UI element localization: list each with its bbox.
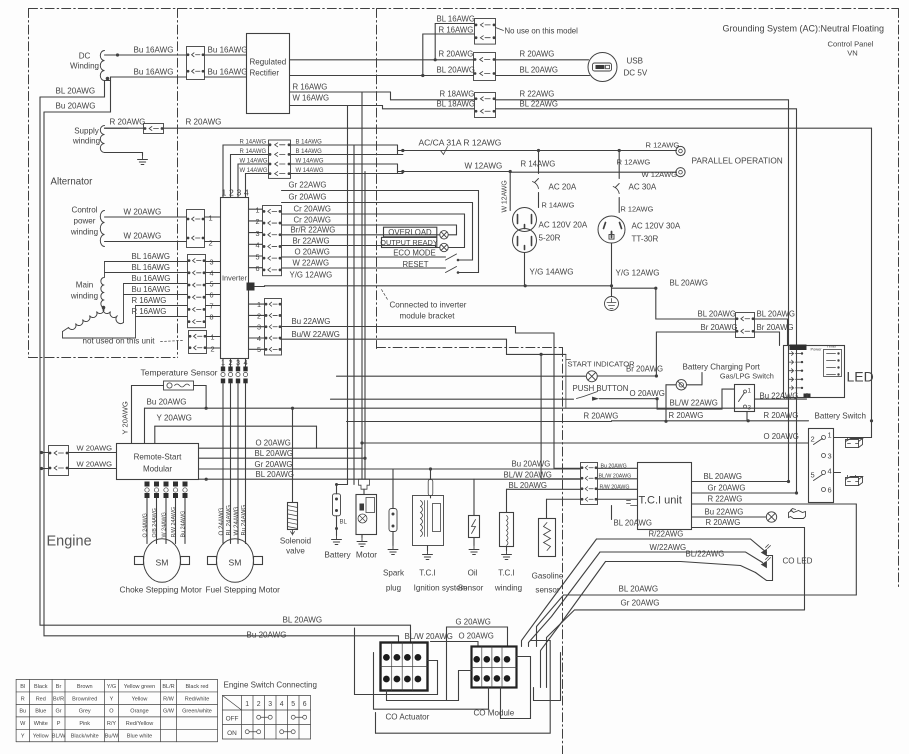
colour code table	[16, 680, 217, 742]
svg-text:Power: Power	[811, 347, 823, 352]
svg-text:5: 5	[811, 471, 815, 480]
wire R 16AWG main winding row 8	[136, 316, 188, 318]
wire W 16AWG vertical drop to battery	[347, 106, 349, 485]
svg-text:Y 20AWG: Y 20AWG	[121, 401, 130, 434]
wire O 20AWG remote out	[199, 447, 363, 449]
wire BL 16AWG main winding row 3	[105, 261, 188, 263]
svg-text:W 12AWG: W 12AWG	[642, 170, 678, 179]
svg-text:Bu 16AWG: Bu 16AWG	[134, 46, 174, 55]
svg-text:not used on this unit: not used on this unit	[83, 337, 156, 346]
svg-text:Connected to inverter: Connected to inverter	[390, 301, 467, 310]
duplex outlet 5-20R	[513, 208, 537, 232]
svg-text:O 20AWG: O 20AWG	[459, 632, 494, 641]
svg-text:Gr: Gr	[55, 709, 61, 715]
wire solenoid up	[292, 408, 294, 502]
svg-text:Temperature Sensor: Temperature Sensor	[141, 368, 218, 378]
control panel dash-dot divider	[376, 9, 378, 349]
svg-text:BL: BL	[340, 520, 348, 526]
svg-text:OFF: OFF	[226, 716, 239, 723]
svg-text:Br 20AWG: Br 20AWG	[626, 365, 663, 374]
svg-text:START INDICATOR: START INDICATOR	[568, 360, 636, 369]
svg-text:BL 16AWG: BL 16AWG	[132, 263, 171, 272]
wire R 16AWG main winding row 7	[136, 305, 188, 307]
svg-text:W 14AWG: W 14AWG	[240, 159, 268, 165]
svg-text:R 12AWG: R 12AWG	[617, 158, 651, 167]
svg-text:R 12AWG: R 12AWG	[646, 141, 680, 150]
wire gas switch pin3 to R 20AWG	[746, 412, 748, 421]
svg-text:Bu 24AWG: Bu 24AWG	[181, 511, 187, 538]
svg-text:1: 1	[256, 206, 260, 215]
wire R 20AWG usb left	[290, 59, 474, 61]
svg-text:Green/white: Green/white	[182, 709, 212, 715]
wire push button left	[331, 398, 574, 400]
choke stepping motor SM	[144, 539, 181, 583]
wire BL 20AWG usb right	[496, 75, 590, 77]
ground supply winding	[105, 153, 143, 156]
svg-text:Supply: Supply	[74, 127, 99, 136]
svg-text:BL 22AWG: BL 22AWG	[520, 100, 559, 109]
wire co module riser 1	[501, 657, 531, 719]
svg-text:Br: Br	[56, 684, 62, 690]
svg-text:4: 4	[244, 358, 248, 367]
battery icon upper	[846, 438, 863, 448]
wire co module loop 1	[387, 671, 472, 701]
temperature sensor symbol	[164, 381, 194, 390]
wire Gr 20AWG remote out to tci	[199, 468, 581, 470]
svg-text:ECO MODE: ECO MODE	[393, 249, 436, 258]
wire BL 20AWG remote out	[199, 457, 366, 459]
svg-text:3: 3	[237, 188, 242, 198]
svg-text:winding: winding	[72, 137, 100, 146]
svg-text:R 16AWG: R 16AWG	[132, 296, 167, 305]
coil supply winding	[100, 126, 104, 153]
tci unit box	[638, 463, 692, 530]
wire Bu 16AWG to rectifier lower	[205, 76, 247, 78]
svg-text:Main: Main	[76, 281, 93, 290]
connector remote start left	[49, 446, 69, 476]
svg-text:W 24AWG: W 24AWG	[233, 506, 240, 535]
wires B/W 14AWG to junctions	[291, 144, 398, 146]
svg-text:Regulated: Regulated	[250, 58, 287, 67]
svg-text:Bu 16AWG: Bu 16AWG	[132, 285, 171, 294]
svg-text:5-20R: 5-20R	[539, 234, 561, 243]
svg-text:Engine Switch Connecting: Engine Switch Connecting	[224, 681, 317, 690]
battery icon lower	[846, 476, 863, 486]
wire tci winding up	[506, 489, 508, 512]
wire Gr 22AWG	[282, 190, 479, 192]
svg-text:Battery Charging Port: Battery Charging Port	[683, 363, 761, 372]
svg-text:1: 1	[828, 431, 832, 440]
wire Br 22AWG to output ready	[282, 246, 440, 248]
svg-text:DC 5V: DC 5V	[624, 69, 648, 78]
battery charging port symbol	[676, 380, 686, 390]
svg-text:Y/G: Y/G	[107, 684, 117, 690]
svg-text:R 14AWG: R 14AWG	[542, 201, 575, 210]
wire Bu/W 22AWG inverter to start	[281, 339, 566, 354]
wire BL 20AWG remote out 2	[199, 478, 581, 480]
wire Bu 16AWG lower	[105, 77, 187, 81]
svg-text:5: 5	[256, 252, 260, 261]
wire W 20AWG remote 1	[41, 452, 49, 454]
svg-text:T.C.I: T.C.I	[498, 569, 515, 578]
svg-text:R 22AWG: R 22AWG	[520, 90, 555, 99]
svg-text:W 12AWG: W 12AWG	[502, 180, 509, 212]
svg-text:BL/W 20AWG: BL/W 20AWG	[504, 471, 552, 480]
svg-text:valve: valve	[286, 547, 305, 556]
svg-text:W 24AWG: W 24AWG	[162, 512, 168, 537]
svg-text:AC 30A: AC 30A	[629, 183, 657, 192]
svg-text:Pink: Pink	[79, 721, 90, 727]
coil DC winding	[100, 51, 104, 81]
wire Br 20AWG to led	[656, 332, 735, 376]
svg-text:Winding: Winding	[70, 62, 99, 71]
svg-text:6: 6	[303, 701, 307, 708]
ground bolt symbol	[605, 297, 619, 311]
wire O 20AWG to eco mode	[282, 256, 446, 258]
svg-text:AC 20A: AC 20A	[549, 183, 577, 192]
svg-text:Cr 20AWG: Cr 20AWG	[294, 216, 331, 225]
frame dash-dot border right	[898, 9, 900, 590]
svg-text:O 20AWG: O 20AWG	[256, 439, 291, 448]
svg-text:O: O	[109, 709, 114, 715]
svg-text:Bu 20AWG: Bu 20AWG	[247, 631, 287, 640]
svg-text:Y: Y	[110, 696, 114, 702]
svg-text:Battery: Battery	[324, 551, 351, 560]
engine switch table	[223, 696, 311, 740]
label No use on this model	[496, 28, 504, 31]
wire W 12AWG outlet vertical	[509, 172, 511, 211]
fuel stepping motor SM	[217, 539, 254, 583]
wire Br/R 22AWG to overload	[282, 234, 440, 236]
svg-text:No use on this model: No use on this model	[505, 27, 579, 36]
svg-text:Oil: Oil	[468, 569, 478, 578]
svg-text:Y 20AWG: Y 20AWG	[157, 414, 192, 423]
svg-text:Bu/W 22AWG: Bu/W 22AWG	[292, 330, 340, 339]
wire eco switch wrap to Gr row	[458, 203, 473, 261]
svg-text:Y/G 12AWG: Y/G 12AWG	[616, 269, 660, 278]
svg-text:Bu 20AWG: Bu 20AWG	[512, 460, 551, 469]
connector DC winding	[187, 47, 205, 80]
wire R 20AWG supply	[105, 127, 129, 129]
engine switch ON links	[245, 730, 249, 734]
wire spark-ignition junction	[429, 467, 432, 470]
svg-text:W 20AWG: W 20AWG	[124, 232, 162, 241]
svg-text:1: 1	[245, 701, 249, 708]
svg-text:Bu 16AWG: Bu 16AWG	[208, 46, 248, 55]
wire Cr 20AWG b	[282, 224, 457, 226]
svg-text:plug: plug	[386, 584, 401, 593]
wire tci ign up	[430, 469, 432, 480]
connector not-used rows 1-2	[189, 331, 207, 354]
svg-text:R 16AWG: R 16AWG	[439, 26, 474, 35]
wire co actuator loop 1	[355, 628, 438, 695]
svg-text:R/W 24AWG: R/W 24AWG	[171, 507, 177, 538]
svg-text:BL/W 22AWG: BL/W 22AWG	[670, 399, 718, 408]
svg-text:CO Actuator: CO Actuator	[386, 713, 430, 722]
svg-text:Blue white: Blue white	[127, 734, 152, 740]
wire Y/G 12AWG ground drop	[611, 243, 613, 297]
co led symbols	[762, 545, 771, 556]
svg-text:R: R	[21, 696, 25, 702]
wire BL 20AWG tci ground	[627, 501, 638, 506]
output ready indicator box	[382, 237, 437, 247]
svg-text:R 20AWG: R 20AWG	[584, 412, 619, 421]
svg-text:Bl: Bl	[20, 684, 25, 690]
svg-text:O 24AWG: O 24AWG	[143, 513, 149, 537]
wire co diagonal bundle	[522, 539, 597, 647]
wire start indicator to Br vertical	[597, 375, 656, 377]
svg-text:G/W: G/W	[163, 709, 175, 715]
svg-text:W 14AWG: W 14AWG	[296, 168, 324, 174]
svg-text:Black red: Black red	[186, 684, 209, 690]
wire Cr 20AWG a	[282, 213, 465, 215]
wire BL 18AWG group	[383, 108, 475, 110]
wire gasoline sensor up	[546, 499, 548, 518]
svg-text:R 18AWG: R 18AWG	[440, 90, 475, 99]
svg-text:Yellow: Yellow	[132, 696, 148, 702]
svg-text:R 16AWG: R 16AWG	[132, 307, 167, 316]
svg-text:Y/G 12AWG: Y/G 12AWG	[290, 271, 333, 280]
inverter top pin wires	[223, 145, 269, 198]
wire R 18AWG group	[391, 99, 475, 101]
svg-text:R 20AWG: R 20AWG	[706, 518, 741, 527]
wire Bu 16AWG main winding row 6	[124, 294, 188, 296]
wire R 16AWG vertical drop to motor	[361, 92, 363, 479]
connector usb group	[474, 53, 496, 81]
svg-text:1: 1	[222, 188, 227, 198]
svg-text:Control Panel: Control Panel	[828, 40, 874, 49]
wire R 22AWG right drop	[855, 504, 857, 595]
wire R 22AWG right	[496, 100, 789, 482]
svg-text:O 24AWG: O 24AWG	[218, 507, 225, 535]
svg-text:Bu 16AWG: Bu 16AWG	[134, 68, 174, 77]
wire spark plug up	[392, 469, 394, 509]
battery fuse symbol	[337, 484, 348, 486]
svg-text:LED: LED	[847, 369, 874, 385]
svg-text:BL 20AWG: BL 20AWG	[283, 616, 323, 625]
lamp start indicator	[586, 371, 597, 382]
svg-text:B 14AWG: B 14AWG	[296, 140, 323, 146]
wire W 20AWG pin1	[105, 216, 187, 218]
svg-text:USB: USB	[627, 57, 644, 66]
svg-text:SM: SM	[229, 558, 242, 568]
svg-text:R 20AWG: R 20AWG	[520, 50, 555, 59]
wire Br 20AWG led side	[755, 332, 780, 346]
wire BL 20AWG tci out	[692, 481, 789, 483]
svg-text:R/22AWG: R/22AWG	[649, 530, 684, 539]
svg-text:Grounding System (AC):Neutral: Grounding System (AC):Neutral Floating	[723, 24, 885, 34]
motor connector lead	[363, 489, 365, 494]
connector inverter lower 1-5	[265, 299, 282, 356]
svg-text:BL 18AWG: BL 18AWG	[437, 100, 476, 109]
wire W 20AWG remote 2	[41, 468, 49, 470]
svg-text:BL 16AWG: BL 16AWG	[132, 252, 171, 261]
oil sensor symbol	[469, 516, 480, 538]
svg-text:R 14AWG: R 14AWG	[240, 149, 267, 155]
svg-text:Grey: Grey	[79, 709, 91, 715]
svg-text:Bu 16AWG: Bu 16AWG	[208, 68, 248, 77]
svg-text:3: 3	[256, 229, 260, 238]
svg-text:BL 20AWG: BL 20AWG	[698, 310, 737, 319]
svg-text:1: 1	[209, 214, 213, 223]
svg-text:winding: winding	[494, 584, 522, 593]
wire R 20AWG tci out	[692, 527, 787, 529]
svg-text:R/W: R/W	[163, 696, 175, 702]
svg-text:PARALLEL OPERATION: PARALLEL OPERATION	[692, 157, 783, 166]
svg-text:R 20AWG: R 20AWG	[110, 118, 146, 127]
svg-text:Gas/LPG Switch: Gas/LPG Switch	[720, 372, 774, 381]
svg-text:1: 1	[748, 388, 752, 395]
wire Bu 22AWG tci lamp	[692, 516, 766, 518]
wire to inverter pin2	[205, 241, 221, 243]
svg-text:Gasoline: Gasoline	[532, 572, 564, 581]
inverter bottom wires to fuel motor	[222, 359, 224, 367]
svg-text:R 20AWG: R 20AWG	[764, 411, 799, 420]
svg-text:BL 20AWG: BL 20AWG	[670, 279, 709, 288]
svg-text:1: 1	[221, 358, 225, 367]
svg-text:Red/white: Red/white	[185, 696, 210, 702]
svg-text:Bu 22AWG: Bu 22AWG	[292, 317, 331, 326]
svg-text:Timer: Timer	[827, 344, 838, 349]
svg-text:Br 22AWG: Br 22AWG	[293, 237, 330, 246]
wire BL 16AWG main winding row 4	[105, 272, 188, 274]
connector no-use group	[475, 19, 496, 45]
remote start bottom pins	[145, 482, 150, 487]
wire R 22AWG tci out	[692, 503, 857, 505]
parallel operation ports	[676, 146, 685, 155]
svg-text:6: 6	[828, 486, 832, 495]
wire Gr 20AWG	[282, 202, 473, 204]
co module box	[472, 647, 517, 688]
alternator section dash-dot bottom border	[29, 357, 178, 359]
wire R 20AWG middle	[347, 421, 612, 423]
svg-text:Motor: Motor	[356, 551, 377, 560]
wire charging port right lead	[687, 384, 703, 386]
connector BL/Br 20AWG	[736, 313, 755, 338]
svg-text:2: 2	[229, 358, 233, 367]
svg-text:AC 120V 20A: AC 120V 20A	[539, 221, 588, 230]
connector 18AWG group	[475, 93, 496, 118]
svg-text:BL/W: BL/W	[52, 734, 66, 740]
wire O 20AWG battery switch	[362, 442, 809, 444]
svg-text:BL 20AWG: BL 20AWG	[757, 310, 796, 319]
svg-text:BL/R: BL/R	[162, 684, 174, 690]
svg-text:BL 20AWG: BL 20AWG	[437, 66, 476, 75]
svg-text:P: P	[57, 721, 61, 727]
LED display module	[784, 346, 845, 398]
svg-text:RESET: RESET	[402, 260, 428, 269]
wire BL 20AWG to led	[612, 287, 656, 289]
start indicator bracket	[566, 354, 571, 407]
svg-text:Spark: Spark	[383, 569, 405, 578]
wire Y/G 12AWG	[255, 285, 526, 288]
breaker AC 20A	[537, 149, 540, 152]
svg-text:4: 4	[828, 467, 832, 476]
svg-text:OUTPUT READY: OUTPUT READY	[380, 238, 438, 247]
wire BL 20AWG usb left	[290, 75, 474, 77]
svg-text:Gr 20AWG: Gr 20AWG	[255, 460, 293, 469]
solenoid valve symbol	[288, 503, 298, 530]
wire reset switch wrap to Gr row	[458, 191, 479, 273]
switch reset	[446, 267, 457, 273]
inverter bracket pin	[247, 283, 255, 291]
wire R 20AWG long to right	[164, 127, 872, 129]
svg-text:BL/22AWG: BL/22AWG	[686, 550, 725, 559]
connector 14AWG rows	[269, 140, 291, 178]
wire BL 16AWG no-use	[435, 24, 474, 60]
svg-text:Br/R: Br/R	[53, 696, 64, 702]
wire Gr 20AWG tci out	[692, 492, 797, 494]
alternator section dash-dot left border	[28, 9, 30, 358]
svg-text:Sensor: Sensor	[458, 584, 484, 593]
svg-text:Y/G 14AWG: Y/G 14AWG	[530, 268, 574, 277]
svg-text:Gr 20AWG: Gr 20AWG	[708, 484, 746, 493]
svg-text:W 12AWG: W 12AWG	[465, 162, 503, 171]
tci winding symbol	[500, 513, 514, 547]
svg-text:O 20AWG: O 20AWG	[630, 389, 665, 398]
svg-text:4: 4	[256, 241, 260, 250]
svg-text:Bu 24AWG: Bu 24AWG	[241, 505, 248, 536]
svg-text:5: 5	[291, 701, 295, 708]
wire output ready lamp wrap to Cr row	[449, 214, 465, 248]
co actuator box	[381, 643, 428, 691]
svg-text:T.C.I: T.C.I	[419, 569, 436, 578]
svg-text:W 14AWG: W 14AWG	[296, 159, 324, 165]
svg-text:Bu: Bu	[19, 709, 26, 715]
svg-text:BL/W 20AWG: BL/W 20AWG	[405, 632, 453, 641]
wire co led loop	[756, 556, 773, 581]
svg-text:Yellow: Yellow	[33, 734, 49, 740]
wire BL 20AWG long bottom	[40, 97, 411, 643]
svg-text:ON: ON	[227, 730, 237, 737]
alternator section dash-dot divider	[177, 9, 179, 358]
wire R 20AWG right to battery switch	[612, 420, 809, 422]
gas/lpg switch box	[735, 385, 755, 412]
svg-text:Solenoid: Solenoid	[280, 537, 311, 546]
frame dash-dot border top	[29, 8, 899, 10]
svg-text:Fuel Stepping Motor: Fuel Stepping Motor	[206, 586, 281, 595]
svg-text:G 20AWG: G 20AWG	[456, 618, 491, 627]
svg-text:Bu 20AWG: Bu 20AWG	[56, 102, 96, 111]
svg-text:Br 20AWG: Br 20AWG	[701, 323, 738, 332]
svg-text:BL 20AWG: BL 20AWG	[256, 470, 295, 479]
main winding 3-phase coil symbol	[101, 278, 104, 308]
wire overload lamp wrap to Cr row	[449, 225, 457, 235]
motor connector	[359, 479, 370, 489]
svg-text:BL 20AWG: BL 20AWG	[619, 585, 659, 594]
svg-text:Gr 20AWG: Gr 20AWG	[289, 193, 327, 202]
remote start modular box	[117, 444, 199, 480]
inverter box U1	[221, 198, 249, 359]
svg-text:O 20AWG: O 20AWG	[764, 432, 799, 441]
regulated rectifier box	[247, 34, 290, 114]
engine switch OFF links	[257, 715, 261, 719]
svg-text:Gr 22AWG: Gr 22AWG	[289, 181, 327, 190]
svg-text:Orange: Orange	[130, 709, 148, 715]
svg-text:R 20AWG: R 20AWG	[439, 50, 474, 59]
svg-text:Black/white: Black/white	[71, 734, 99, 740]
wire W 22AWG to reset	[282, 267, 446, 269]
svg-text:module bracket: module bracket	[400, 312, 456, 321]
bottom dash-dot divider	[562, 348, 564, 754]
svg-text:Control: Control	[72, 206, 98, 215]
wire co module loop 2	[376, 641, 551, 734]
wire BL 20AWG co return	[537, 595, 857, 647]
svg-text:W 16AWG: W 16AWG	[293, 94, 330, 103]
svg-text:Bu 16AWG: Bu 16AWG	[132, 274, 171, 283]
lamp output ready	[440, 243, 448, 251]
svg-text:BL 20AWG: BL 20AWG	[520, 66, 559, 75]
